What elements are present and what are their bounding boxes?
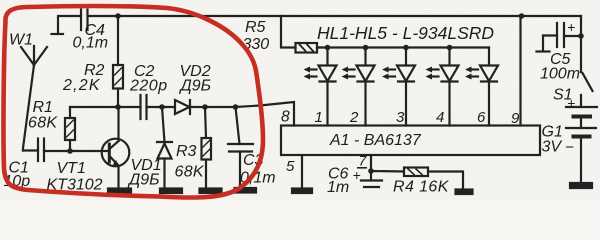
node LED2 bus junction xyxy=(363,45,369,51)
capacitor C1 xyxy=(23,139,44,162)
node C5 switch junction xyxy=(578,33,584,39)
node pin9 rail junction xyxy=(519,13,525,19)
capacitor C6 xyxy=(361,171,382,187)
wire R2 bottom xyxy=(117,89,119,108)
wire base xyxy=(44,150,109,152)
node LED1 bus junction xyxy=(325,45,331,51)
wire collector node to C2 xyxy=(118,106,141,108)
resistor R4 xyxy=(371,168,463,190)
node R1 base junction xyxy=(67,148,73,154)
wire C2 to node xyxy=(147,106,176,108)
node C3 junction xyxy=(233,104,239,110)
ground G1 xyxy=(570,183,592,188)
capacitor C3 xyxy=(228,107,253,188)
wire top rail corner down xyxy=(580,16,582,72)
wire LED anode bus xyxy=(317,46,489,48)
red loop annotation xyxy=(4,6,264,197)
ground VD1 xyxy=(160,189,182,194)
LED HL5 xyxy=(465,48,498,126)
node C4 rail junction xyxy=(115,13,121,19)
resistor R2 xyxy=(113,65,123,89)
resistor R1 xyxy=(65,107,75,151)
node collector junction xyxy=(115,104,121,110)
diode VD1 xyxy=(157,107,172,189)
pin 7 underline xyxy=(357,167,367,169)
wire pin5 xyxy=(301,156,303,189)
ground R3 xyxy=(200,189,222,194)
ground C3 xyxy=(235,188,257,193)
resistor R3 xyxy=(202,107,212,189)
node VD1 junction xyxy=(159,104,165,110)
wire VD2 to R3 node xyxy=(190,106,236,108)
wire R3 node to pin8 xyxy=(236,102,294,126)
op-amp U1 A1 BA6137 body xyxy=(281,126,540,156)
node LED3 bus junction xyxy=(403,45,409,51)
resistor R5 xyxy=(281,16,322,53)
ground VT1 emitter xyxy=(108,189,131,194)
diode VD2 xyxy=(175,100,190,114)
switch S1 xyxy=(581,73,593,107)
node LED4 bus junction xyxy=(447,45,453,51)
capacitor C4 xyxy=(52,10,88,35)
battery G1 xyxy=(566,107,597,183)
LED HL2 xyxy=(342,48,375,126)
wire pin7 xyxy=(370,156,372,172)
node R3 junction xyxy=(202,104,208,110)
wire R1 top to collector node xyxy=(70,106,118,108)
wire top rail xyxy=(88,15,581,17)
ground R4 xyxy=(456,190,473,195)
LED HL1 xyxy=(304,48,337,126)
ground pin5 xyxy=(292,189,312,194)
capacitor C2 xyxy=(141,95,147,119)
wire R2 top xyxy=(117,16,119,65)
wire pin9 xyxy=(519,16,521,126)
node pin7 junction xyxy=(368,168,374,174)
LED HL4 xyxy=(426,48,459,126)
transistor Q VT1 xyxy=(102,107,130,189)
LED HL3 xyxy=(382,48,415,126)
capacitor C5 xyxy=(537,23,582,52)
antenna W1 xyxy=(21,46,47,151)
